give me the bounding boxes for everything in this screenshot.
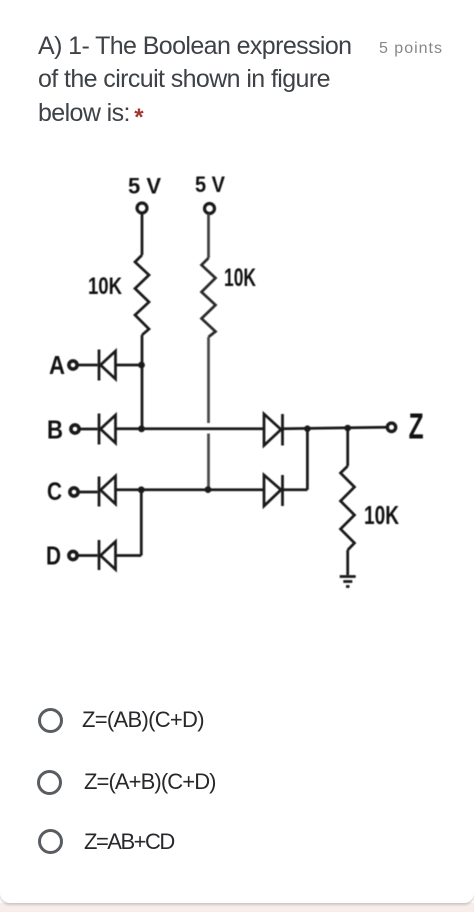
wire: B row horizontal to diode D5 [116, 427, 265, 430]
wire: D row to riser [116, 554, 142, 557]
output terminal Z: circle [387, 423, 395, 431]
wire: R3 to ground [346, 550, 349, 575]
diode D5 (triangle, B row series) [264, 414, 281, 446]
junction node Z2 (pulldown resistor tap) [344, 425, 351, 432]
diode D3 (cathode bar) [98, 477, 101, 507]
power terminal 5V right: circle [205, 204, 215, 214]
input terminal B: circle [71, 425, 79, 433]
svg-text:10K: 10K [224, 264, 256, 292]
input terminal C: circle [70, 488, 78, 496]
radio option 3 [38, 829, 63, 854]
wire: riser from D row up to node C1 [140, 490, 143, 556]
svg-text:C: C [47, 478, 62, 506]
wire: D6 to riser corner [283, 488, 308, 491]
wire: D terminal to diode D4 [78, 554, 98, 557]
input terminal D: circle [69, 551, 77, 559]
svg-text:10K: 10K [88, 273, 123, 300]
diode D6 (triangle, C row series) [264, 475, 281, 506]
junction node Z1 (riser from D6 joins B row) [304, 425, 311, 432]
diode D4 (triangle) [101, 542, 116, 570]
wire: D1 to bus node A1 [116, 364, 144, 367]
wire: bus from R1 down through node A to node B [141, 335, 144, 429]
svg-text:5 V: 5 V [195, 172, 225, 197]
wire: bus from R2 below crossing to node C2 [207, 434, 210, 489]
resistor R2 10K zigzag [202, 258, 216, 337]
svg-text:D: D [46, 541, 61, 571]
diode D3 (triangle) [101, 476, 116, 504]
ground symbol [340, 577, 356, 587]
wire: C row horizontal to diode D6 [116, 488, 265, 491]
input terminal A: circle [69, 361, 77, 369]
junction node B1 (bus R1 meets B row) [138, 425, 145, 432]
svg-text:A: A [49, 350, 65, 380]
junction node C2 (bus R2 meets C row) [205, 486, 212, 493]
diode D5 (cathode bar) [281, 414, 284, 446]
radio option 2 [37, 770, 62, 795]
junction node C1 (D row joins C row) [138, 486, 145, 493]
wire: C terminal to diode D3 [79, 491, 98, 494]
svg-text:10K: 10K [364, 500, 399, 530]
wire: B terminal to diode D2 [80, 428, 98, 431]
bottom page background [0, 903, 474, 912]
wire: D5 to output node row [283, 427, 387, 429]
svg-text:B: B [47, 415, 63, 445]
wire: 5V right terminal to resistor R2 [207, 214, 210, 258]
radio option 1 [38, 708, 63, 733]
wire: riser from C row output up to node Z1 [306, 429, 309, 490]
diode D2 (triangle) [101, 415, 116, 443]
diode D2 (cathode bar) [98, 414, 101, 445]
diode D1 (triangle) [101, 351, 116, 379]
card bottom edge [0, 874, 474, 903]
wire: 5V left terminal to resistor R1 [141, 213, 144, 255]
wire: A terminal to diode D1 [78, 364, 98, 367]
power terminal 5V left: circle [137, 203, 147, 213]
resistor R3 10K zigzag (pulldown) [341, 466, 355, 550]
diode D4 (cathode bar) [98, 540, 101, 570]
svg-text:Z: Z [409, 406, 424, 447]
diode D6 (cathode bar) [281, 475, 284, 506]
wire: node Z2 down to resistor R3 [346, 428, 349, 466]
resistor R1 10K zigzag [135, 255, 149, 335]
svg-text:5 V: 5 V [128, 174, 161, 199]
wire: bus from R2 down to crossing above node B (no connection hop) [207, 337, 210, 423]
diode D1 (cathode bar) [98, 350, 101, 381]
junction node A1 [138, 362, 145, 369]
